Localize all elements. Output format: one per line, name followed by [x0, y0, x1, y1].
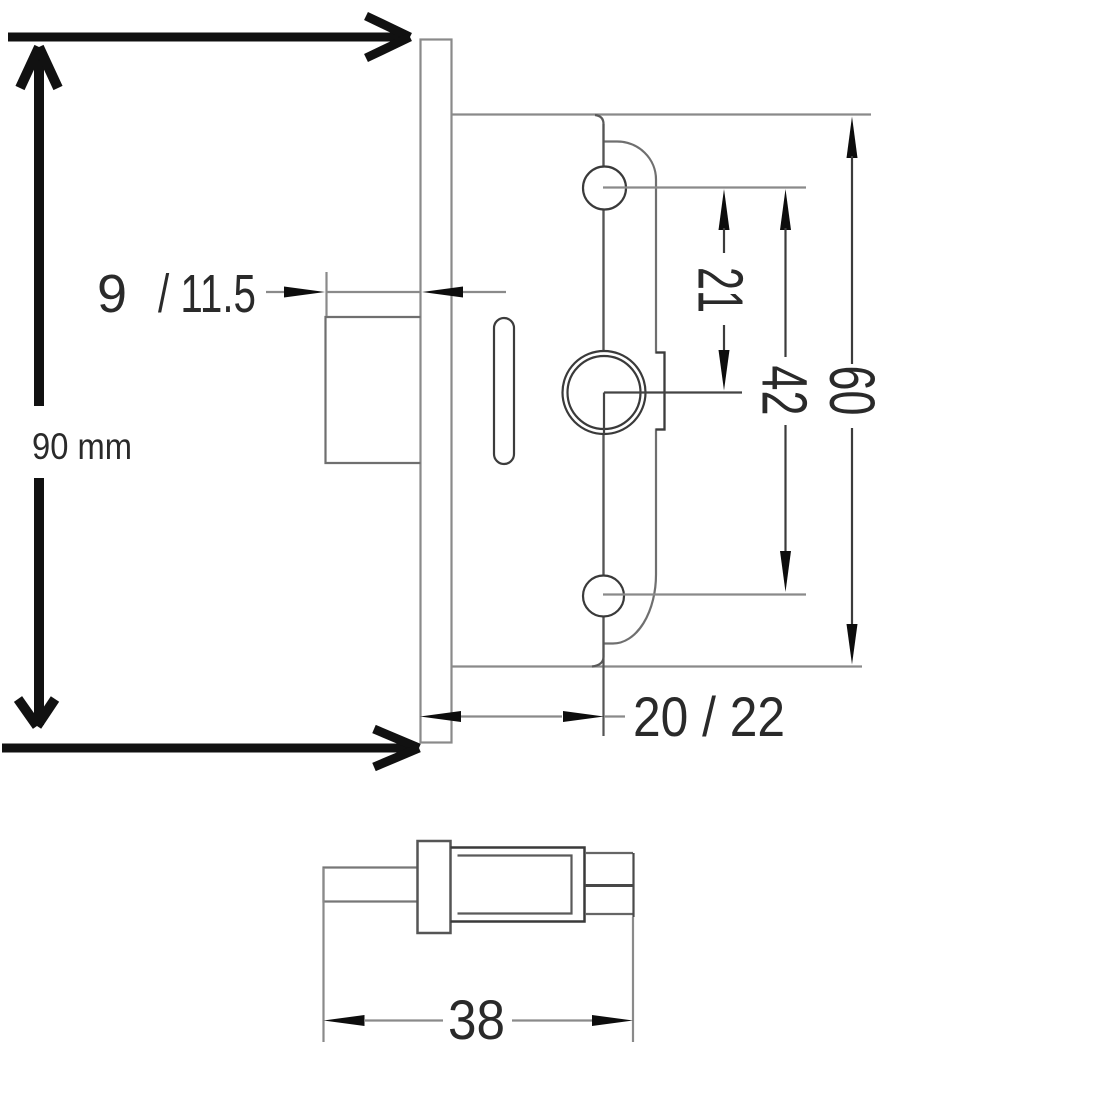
- follower housing side view: [585, 853, 634, 917]
- top hole centre extension line: [603, 186, 806, 188]
- svg-text:90 mm: 90 mm: [32, 426, 132, 467]
- spring slot: [494, 318, 514, 464]
- lock body top edge / 60 extension line: [452, 113, 872, 115]
- big circle centre extension line: [604, 391, 742, 393]
- lock case right edge with corner fillets: [592, 115, 604, 667]
- bottom screw hole: [583, 576, 624, 617]
- dimension 21 vertical: [719, 189, 730, 391]
- thick top arrow: [8, 16, 410, 58]
- bottom hole centre extension line: [603, 593, 806, 595]
- top screw hole: [583, 167, 626, 210]
- latch bolt side view: [324, 868, 418, 902]
- thick vertical double arrow 90mm: [18, 47, 58, 726]
- svg-text:/ 11.5: / 11.5: [158, 264, 256, 324]
- svg-text:9: 9: [97, 264, 127, 324]
- lock body bottom edge / 60 extension line: [452, 665, 863, 667]
- dimension 60 vertical: [847, 117, 858, 665]
- dimension 42 vertical: [780, 189, 791, 592]
- svg-text:38: 38: [448, 988, 505, 1051]
- lock case inner wall: [458, 856, 572, 914]
- follower big circle: [563, 351, 646, 434]
- svg-text:21: 21: [685, 267, 757, 313]
- lock case outer: [451, 848, 585, 922]
- follower housing rounded plate: [604, 142, 665, 644]
- dimension 20 / 22: [420, 711, 625, 722]
- svg-text:60: 60: [816, 366, 888, 416]
- thick bottom arrow: [2, 729, 419, 767]
- big circle lower half centre line: [603, 393, 605, 435]
- dimension 38: [324, 868, 634, 1042]
- faceplate front view: [421, 40, 452, 743]
- vertical centre line through holes / 20-22 extension: [602, 124, 604, 736]
- latch bolt front view: [326, 317, 421, 463]
- svg-text:42: 42: [749, 366, 821, 416]
- follower square bump (darker): [656, 353, 665, 430]
- faceplate side view: [418, 841, 451, 933]
- svg-text:20 / 22: 20 / 22: [633, 685, 785, 748]
